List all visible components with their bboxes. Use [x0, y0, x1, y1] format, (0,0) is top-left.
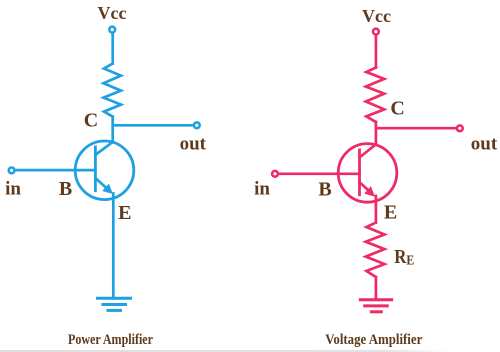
- wire resistor to collector node: [375, 122, 378, 144]
- svg-text:Vcc: Vcc: [98, 3, 127, 23]
- svg-text:out: out: [471, 134, 498, 155]
- transistor Q2 emitter diagonal: [360, 182, 371, 192]
- wire emitter to RE: [375, 196, 378, 223]
- transistor Q1 collector diagonal: [95, 142, 113, 155]
- svg-text:B: B: [318, 179, 331, 201]
- ground (right) bar 3: [371, 310, 381, 313]
- transistor Q2 base bar: [358, 150, 361, 195]
- wire Vcc to resistor: [111, 33, 114, 63]
- transistor Q2 circle: [338, 144, 397, 203]
- wire in (right): [278, 172, 360, 175]
- wire resistor to collector node: [111, 117, 114, 143]
- transistor Q1 base bar: [94, 147, 97, 191]
- wire out (left): [113, 124, 194, 127]
- svg-text:E: E: [118, 202, 131, 224]
- resistor RE: [366, 223, 385, 278]
- resistor RC right: [366, 68, 384, 123]
- svg-text:C: C: [390, 98, 404, 120]
- ground (left) bar 1: [98, 297, 131, 300]
- svg-text:out: out: [180, 134, 207, 155]
- svg-text:Voltage Amplifier: Voltage Amplifier: [325, 332, 422, 348]
- svg-text:Vcc: Vcc: [362, 6, 391, 26]
- terminal out (right): [457, 125, 463, 131]
- wire in (left): [15, 169, 96, 172]
- transistor Q2 collector diagonal: [360, 144, 377, 157]
- transistor Q1 emitter arrowhead: [102, 184, 113, 194]
- terminal out (left): [194, 122, 200, 128]
- svg-text:E: E: [384, 202, 397, 224]
- transistor Q1 circle: [75, 141, 134, 200]
- svg-text:B: B: [59, 178, 72, 200]
- terminal Vcc (right): [373, 29, 379, 35]
- transistor Q1 emitter diagonal: [95, 178, 109, 190]
- wire RE to ground: [375, 277, 378, 300]
- svg-text:in: in: [5, 179, 21, 200]
- wire Vcc to resistor: [375, 35, 378, 67]
- terminal in (right): [272, 171, 278, 177]
- wire out (right): [376, 127, 457, 130]
- ground (right) bar 2: [365, 304, 388, 307]
- ground (right) bar 1: [360, 298, 391, 301]
- transistor Q2 emitter arrowhead: [364, 186, 375, 196]
- terminal Vcc (left): [109, 27, 115, 33]
- wire emitter to ground: [112, 194, 115, 299]
- svg-text:in: in: [254, 179, 270, 200]
- ground (left) bar 3: [108, 309, 121, 312]
- resistor RC left: [104, 64, 122, 117]
- ground (left) bar 2: [103, 303, 126, 306]
- svg-text:Power Amplifier: Power Amplifier: [68, 332, 153, 348]
- terminal in (left): [9, 168, 15, 174]
- svg-text:C: C: [84, 110, 98, 132]
